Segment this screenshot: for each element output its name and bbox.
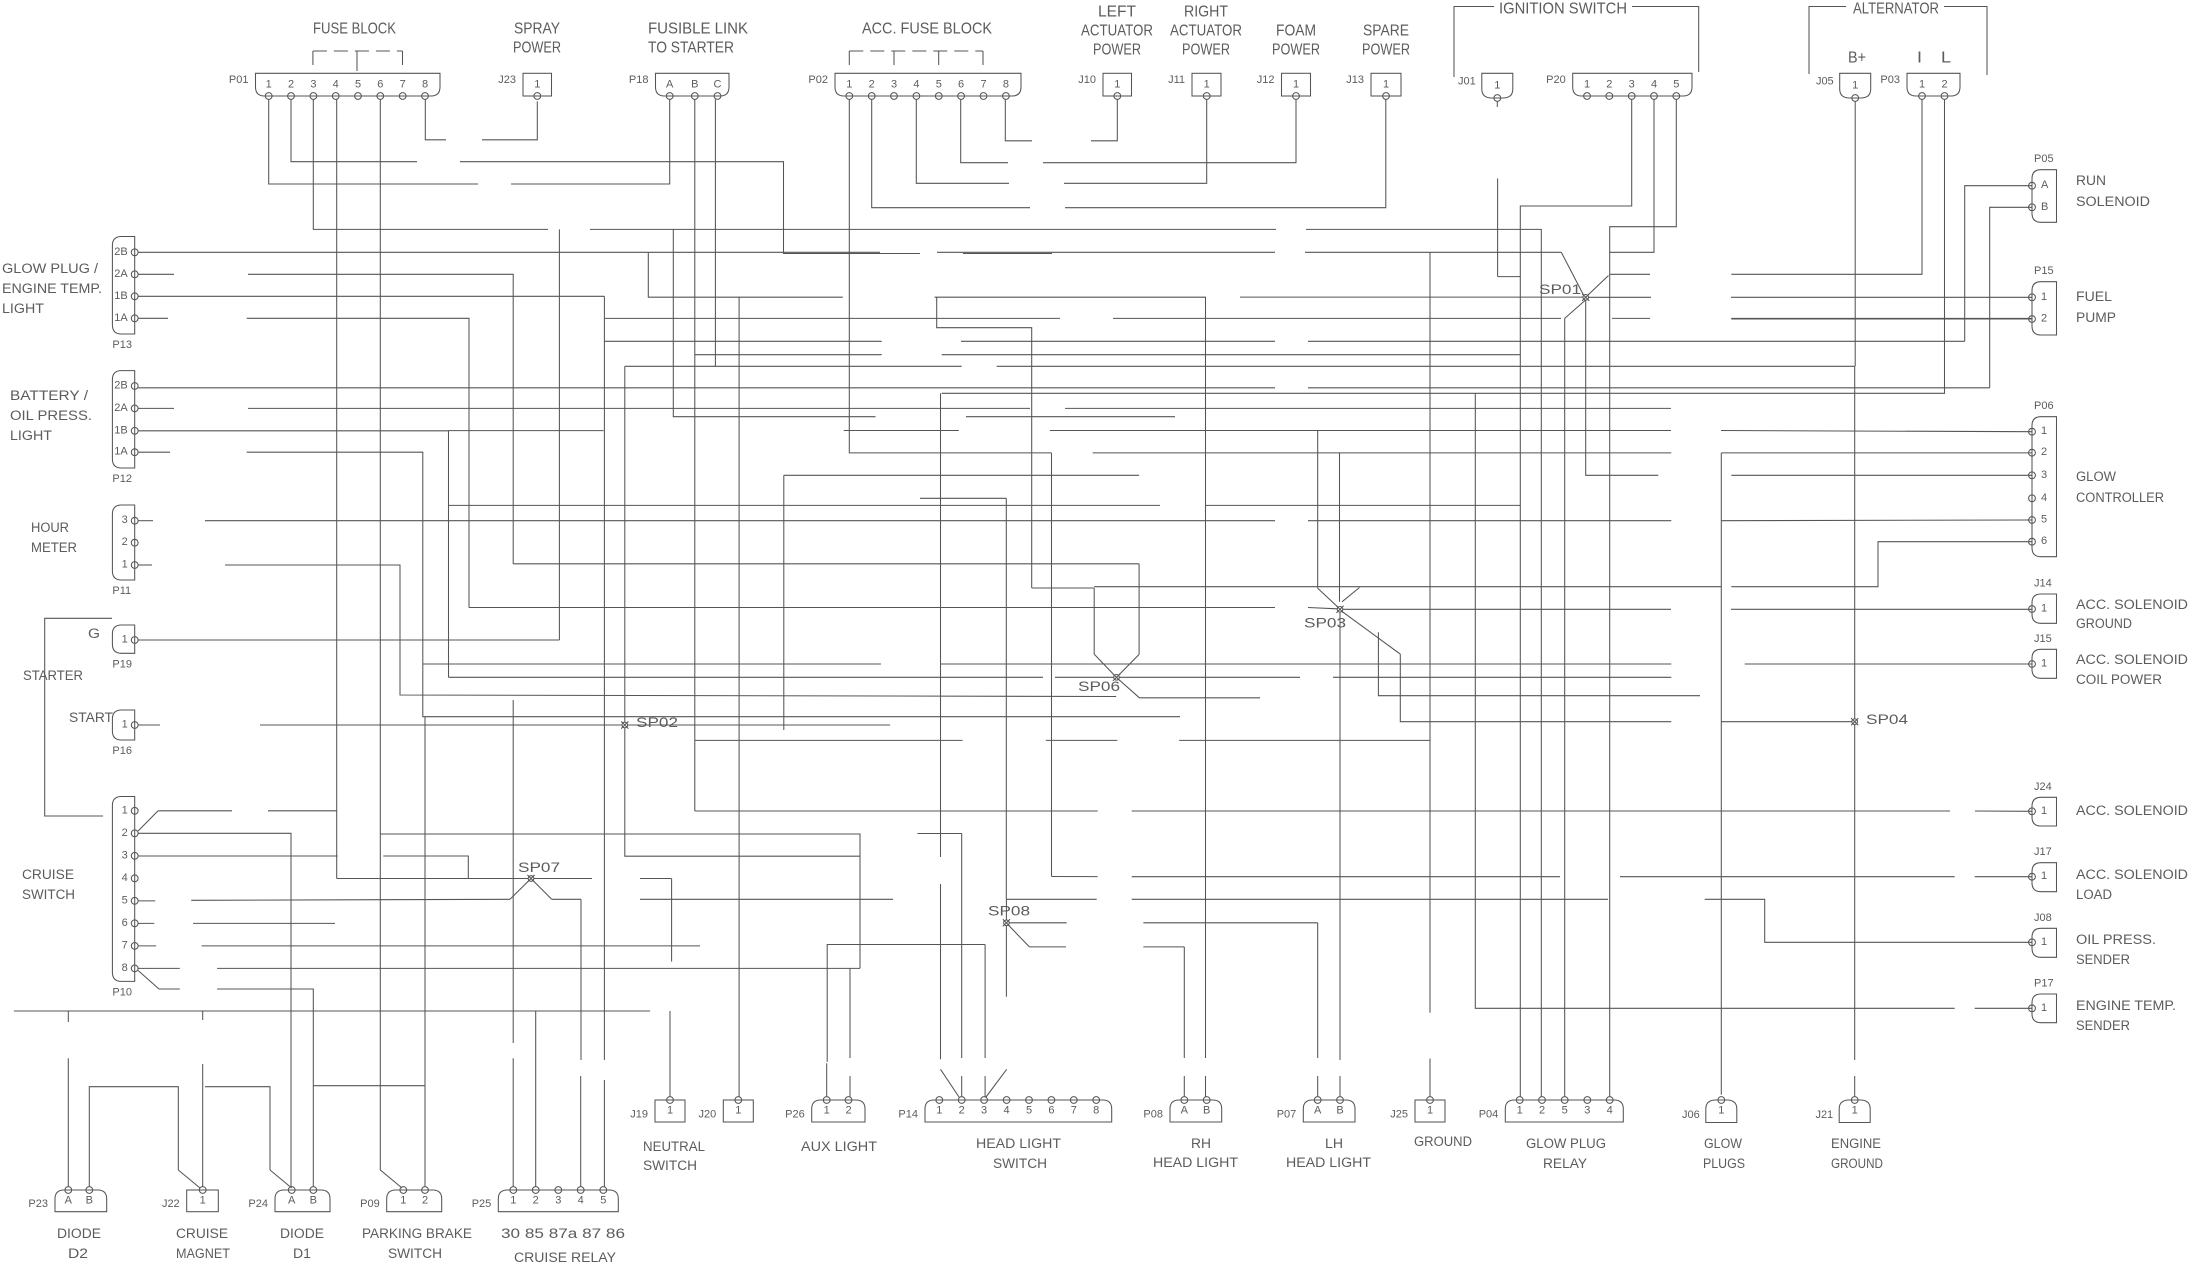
- wire P06-3 lead: [1731, 474, 2032, 476]
- wire SP06 ne feed: [1138, 564, 1140, 655]
- svg-text:GROUND: GROUND: [1414, 1134, 1472, 1149]
- svg-text:2: 2: [122, 536, 128, 548]
- wire fuse3 bus mid: [590, 228, 1276, 230]
- svg-text:6: 6: [958, 79, 964, 91]
- splice SP08: [988, 903, 1030, 926]
- svg-text:CRUISE RELAY: CRUISE RELAY: [514, 1250, 616, 1265]
- wire P11-1 stub: [138, 564, 152, 566]
- diagonal SP08 se: [1008, 925, 1029, 947]
- connector J20 neutral switch: [699, 1097, 754, 1122]
- acc fuse drop p1: [848, 51, 850, 71]
- wire SP08 below: [1005, 925, 1007, 996]
- wire P25-4 riser: [580, 899, 582, 1060]
- wire P15-1 lead: [1731, 296, 2032, 298]
- svg-text:B+: B+: [1848, 50, 1866, 67]
- svg-text:J21: J21: [1815, 1109, 1833, 1121]
- connector J14 acc solenoid ground: [2029, 578, 2057, 624]
- wire J24 bus: [695, 810, 1098, 812]
- svg-text:3: 3: [981, 1105, 987, 1117]
- wire P02-2 to J13 seg2: [1065, 99, 1386, 207]
- svg-text:1A: 1A: [114, 312, 128, 324]
- diagonal 2B to SP01: [1561, 252, 1583, 295]
- diagonal SP07 se: [533, 881, 552, 900]
- svg-text:1: 1: [735, 1105, 741, 1117]
- wire J17 bus2: [1132, 876, 1560, 878]
- wire y955: [1029, 946, 1066, 948]
- wire x1051 drop: [1051, 453, 1053, 877]
- connector J11 right actuator power: [1168, 73, 1221, 99]
- wire P26-1 stub: [826, 1063, 828, 1096]
- svg-text:ENGINE TEMP.: ENGINE TEMP.: [2076, 998, 2176, 1013]
- svg-text:30 85 87a 87 86: 30 85 87a 87 86: [501, 1226, 625, 1241]
- wire P01-3 drop: [313, 99, 548, 229]
- svg-text:2: 2: [122, 827, 128, 839]
- svg-text:B: B: [86, 1195, 93, 1207]
- splice SP01: [1539, 282, 1589, 301]
- svg-text:C: C: [714, 79, 722, 91]
- svg-text:J24: J24: [2034, 781, 2052, 793]
- wire P11-3 bus2: [1308, 520, 1671, 522]
- svg-text:P19: P19: [112, 658, 132, 670]
- wire headlight feed: [648, 252, 843, 297]
- svg-text:5: 5: [2041, 514, 2047, 526]
- svg-text:1: 1: [2041, 291, 2047, 303]
- svg-text:P24: P24: [248, 1198, 268, 1210]
- wire P13-2B bus: [138, 251, 648, 253]
- svg-text:2: 2: [533, 1195, 539, 1207]
- wire x1006 long: [1005, 498, 1007, 899]
- connector P14 head light switch: [898, 1097, 1111, 1122]
- wire P11-3 bus: [205, 520, 1275, 522]
- wire J17 lead: [1975, 876, 2032, 878]
- wire P14-2 feed: [940, 393, 942, 857]
- wire P13-1A mid: [247, 318, 469, 607]
- svg-text:CRUISE: CRUISE: [176, 1226, 228, 1241]
- wire P20-4 drop: [1610, 99, 1654, 252]
- svg-text:1: 1: [1852, 1105, 1858, 1117]
- wire y355 branch mid: [942, 354, 1521, 356]
- wire SP03 drop to P07-B: [1339, 612, 1341, 1060]
- svg-text:1: 1: [1494, 80, 1500, 92]
- svg-text:ENGINE TEMP.: ENGINE TEMP.: [2, 281, 102, 296]
- wire P13-1A stub: [138, 317, 168, 319]
- svg-text:P09: P09: [360, 1198, 380, 1210]
- wire P12-2A bus east: [1065, 407, 1671, 409]
- svg-text:P14: P14: [898, 1109, 918, 1121]
- connector P06 glow controller: [2029, 400, 2057, 557]
- wire P04-5 drop: [1564, 318, 1566, 1096]
- wire y417 east: [966, 416, 1175, 418]
- wire J05 drop: [1854, 101, 1856, 366]
- svg-text:GLOW PLUG: GLOW PLUG: [1526, 1136, 1606, 1151]
- svg-text:2: 2: [288, 79, 294, 91]
- wire P08-B drop b: [1205, 1076, 1207, 1097]
- wire P10-3 lead: [138, 855, 338, 857]
- svg-text:STARTER: STARTER: [23, 668, 83, 683]
- wire y565 bus: [513, 563, 1139, 565]
- wire y274 to P03-1 seg2: [1731, 99, 1922, 274]
- svg-text:ACC. SOLENOID: ACC. SOLENOID: [2076, 597, 2188, 612]
- wire y955 mid: [1143, 946, 1184, 948]
- wire P10-8 lead: [138, 967, 180, 969]
- svg-text:J23: J23: [498, 74, 516, 86]
- svg-text:PUMP: PUMP: [2076, 310, 2116, 325]
- wire P13-2A mid: [248, 274, 513, 564]
- svg-text:J20: J20: [699, 1109, 717, 1121]
- svg-text:6: 6: [1048, 1105, 1054, 1117]
- svg-text:J06: J06: [1682, 1109, 1700, 1121]
- svg-text:P17: P17: [2034, 978, 2054, 990]
- wire P06-1 lead: [1721, 431, 2032, 432]
- wire 1B bus y318 mid: [1113, 317, 1561, 319]
- svg-text:SWITCH: SWITCH: [993, 1156, 1047, 1171]
- wire x783 drop: [783, 475, 785, 730]
- svg-text:1: 1: [824, 1105, 830, 1117]
- wire P06-1 bus west0: [449, 430, 604, 432]
- wire P08-A drop b: [1183, 1076, 1185, 1097]
- wire P12-1B lead: [138, 431, 1160, 506]
- wire P01-1 to P18-A seg1: [269, 99, 478, 184]
- wire P23-B lead: [89, 1087, 178, 1187]
- svg-text:P11: P11: [112, 585, 131, 597]
- svg-text:SP07: SP07: [518, 860, 560, 875]
- connector J19 neutral switch: [630, 1097, 685, 1122]
- svg-text:LH: LH: [1325, 1136, 1343, 1151]
- wire P23-A lead: [67, 1058, 69, 1186]
- wire y587 west: [1032, 587, 1095, 589]
- ignition bracket left: [1454, 7, 1494, 78]
- fuse block jumper drop p3: [312, 51, 314, 71]
- svg-text:3: 3: [555, 1195, 561, 1207]
- wire P05-B bus west: [138, 387, 1275, 389]
- connector P25 cruise relay: [472, 1187, 619, 1212]
- wire P10-5 stub: [138, 900, 155, 902]
- connector P08 RH head light: [1143, 1097, 1221, 1122]
- svg-text:SPARE: SPARE: [1363, 23, 1409, 40]
- svg-text:J11: J11: [1168, 74, 1185, 86]
- svg-text:8: 8: [1093, 1105, 1099, 1117]
- diagonal SP07 sw: [510, 881, 529, 900]
- svg-text:1: 1: [1517, 1105, 1523, 1117]
- svg-text:RUN: RUN: [2076, 173, 2106, 188]
- wire P18-C drop: [714, 99, 716, 366]
- svg-text:1: 1: [1852, 80, 1858, 92]
- wire 1B bus y318 east: [1612, 317, 1650, 319]
- wire P13-1B bus: [138, 295, 604, 297]
- wire SP07 line west: [337, 878, 528, 880]
- connector P16 starter start: [112, 710, 138, 757]
- svg-text:OIL PRESS.: OIL PRESS.: [2076, 932, 2156, 947]
- wire P01-6 long drop: [379, 99, 381, 1170]
- svg-text:A: A: [1314, 1105, 1322, 1117]
- connector P01 fuse block: [229, 73, 440, 99]
- svg-text:SPRAY: SPRAY: [514, 21, 560, 38]
- svg-text:J19: J19: [630, 1109, 648, 1121]
- svg-text:1: 1: [1383, 79, 1389, 91]
- svg-text:TO STARTER: TO STARTER: [648, 40, 734, 57]
- svg-text:4: 4: [578, 1195, 584, 1207]
- svg-text:ENGINE: ENGINE: [1831, 1136, 1881, 1151]
- svg-text:1: 1: [1114, 79, 1120, 91]
- wire y899 bus2: [1006, 898, 1096, 900]
- svg-text:8: 8: [422, 79, 428, 91]
- svg-text:5: 5: [1026, 1105, 1032, 1117]
- wire P07-A drop: [1317, 923, 1319, 1058]
- wire J01 drop: [1497, 179, 1499, 277]
- diagonal SP06 se: [1119, 679, 1140, 697]
- svg-text:2: 2: [422, 1195, 428, 1207]
- svg-text:FOAM: FOAM: [1276, 23, 1316, 40]
- acc fuse drop p3: [893, 51, 895, 71]
- connector P04 glow plug relay: [1479, 1097, 1624, 1122]
- wire P02-4 to J11 seg2: [1064, 99, 1207, 183]
- wire P07-A drop b: [1317, 1076, 1319, 1097]
- svg-text:3: 3: [1584, 1105, 1590, 1117]
- wire P26-2 riser b: [849, 1076, 851, 1097]
- svg-text:I: I: [1917, 50, 1922, 67]
- wire P06-5 lead: [1721, 519, 2032, 522]
- svg-text:1: 1: [1204, 79, 1210, 91]
- wire 1B to SP01 west: [137, 295, 139, 297]
- svg-text:J25: J25: [1390, 1109, 1408, 1121]
- wire P01-4 long drop: [336, 99, 338, 878]
- svg-text:CRUISE: CRUISE: [22, 867, 74, 882]
- wire P01-2 cont: [460, 162, 920, 254]
- connector P19 starter G: [112, 625, 138, 670]
- svg-text:AUX LIGHT: AUX LIGHT: [801, 1139, 877, 1154]
- svg-text:LEFT: LEFT: [1098, 4, 1136, 21]
- wire SP04 to J21: [1854, 725, 1856, 1060]
- wire P24-A riser: [205, 1087, 270, 1170]
- diagonal to P14-3: [986, 1069, 1007, 1097]
- svg-text:P10: P10: [112, 986, 132, 998]
- wire J05 to SP04: [1854, 366, 1856, 718]
- svg-text:1: 1: [122, 559, 128, 571]
- wire P20-5 drop: [1610, 99, 1677, 274]
- svg-text:LIGHT: LIGHT: [2, 301, 44, 316]
- wire P14-2 feed b: [940, 884, 942, 1059]
- svg-text:1: 1: [1718, 1105, 1724, 1117]
- wire SP04 west lead: [1721, 721, 1851, 723]
- wire SP03 feed up: [1317, 431, 1319, 589]
- svg-text:1: 1: [1293, 79, 1299, 91]
- wire x671 drop: [671, 879, 673, 962]
- wire P12-2A stub: [138, 407, 174, 409]
- svg-text:1: 1: [1584, 79, 1590, 91]
- wire P25-2 lead: [535, 1011, 537, 1187]
- svg-text:1: 1: [2041, 936, 2047, 948]
- wire P01-8 to J23: [425, 99, 446, 139]
- wire P14-3 riser: [984, 945, 986, 1059]
- wire ground drop J25 b: [1429, 1059, 1431, 1097]
- wire P09-2 lead: [424, 1086, 426, 1187]
- svg-text:GLOW: GLOW: [1704, 1136, 1742, 1151]
- connector P18 fusible link: [629, 73, 729, 99]
- svg-text:P04: P04: [1479, 1109, 1499, 1121]
- connector J15 acc solenoid coil power: [2029, 633, 2057, 679]
- diagonal P10-8: [138, 971, 159, 990]
- wire x513 lower: [512, 700, 514, 1043]
- svg-text:2: 2: [1941, 79, 1947, 91]
- wire fuse3 bus east: [1306, 229, 1541, 1096]
- wire START lead: [138, 724, 160, 726]
- svg-text:B: B: [1203, 1105, 1210, 1117]
- wire P23-A stub: [67, 1011, 69, 1022]
- wire P02-2 to J13: [872, 99, 1030, 207]
- svg-text:4: 4: [1651, 79, 1657, 91]
- wire P11-3 stub: [138, 520, 153, 522]
- svg-text:1: 1: [2041, 1002, 2047, 1014]
- svg-text:J10: J10: [1078, 74, 1096, 86]
- wire y677 east: [1120, 676, 1301, 678]
- wire y698 east: [1139, 697, 1260, 699]
- svg-text:IGNITION SWITCH: IGNITION SWITCH: [1499, 1, 1627, 18]
- ignition bracket right: [1632, 7, 1699, 73]
- svg-text:P03: P03: [1880, 74, 1900, 86]
- svg-text:J17: J17: [2034, 846, 2052, 858]
- wire P17 lead: [1975, 1007, 2032, 1009]
- wire P17 riser: [1475, 393, 1954, 1008]
- wire J15 lead: [1745, 663, 2032, 665]
- wire SP03 to J14 east: [1731, 608, 2032, 610]
- svg-text:SP01: SP01: [1539, 282, 1581, 297]
- svg-text:HOUR: HOUR: [31, 520, 69, 535]
- wire P12-1A stub: [138, 451, 170, 453]
- wire J22 stub: [202, 1011, 204, 1020]
- connector P07 LH head light: [1277, 1097, 1355, 1122]
- alternator bracket left: [1809, 7, 1846, 75]
- svg-text:7: 7: [122, 939, 128, 951]
- svg-text:1: 1: [2041, 658, 2047, 670]
- svg-text:1: 1: [122, 719, 128, 731]
- svg-text:ACC. SOLENOID: ACC. SOLENOID: [2076, 803, 2188, 818]
- wire P10-5 lead: [191, 899, 510, 900]
- wire P10-3 mid: [383, 856, 468, 879]
- wire y366 east: [997, 365, 1855, 367]
- wire P12-1A mid: [247, 452, 1180, 717]
- wire neutral drop: [738, 297, 740, 1097]
- wire P20-3 drop: [1520, 99, 1631, 276]
- wire P08-A drop: [1183, 947, 1185, 1058]
- svg-text:PARKING BRAKE: PARKING BRAKE: [362, 1226, 472, 1241]
- fuse block jumper dashed: [313, 50, 403, 52]
- wire P14-2 riser: [961, 834, 963, 1059]
- wire P10-6 lead: [193, 922, 335, 924]
- svg-text:FUSE BLOCK: FUSE BLOCK: [313, 21, 396, 38]
- connector P13 glow plug light: [112, 237, 138, 352]
- wire SP02 down: [625, 728, 860, 856]
- wire P06-1 bus: [1050, 430, 1671, 432]
- diagonal SP01 upright: [1588, 276, 1609, 296]
- svg-text:P01: P01: [229, 74, 249, 86]
- connector P24 diode D1: [248, 1187, 330, 1212]
- svg-text:2: 2: [869, 79, 875, 91]
- svg-text:7: 7: [980, 79, 986, 91]
- wire 1B branch down: [448, 505, 450, 677]
- connector J21 engine ground: [1815, 1097, 1870, 1123]
- svg-text:SWITCH: SWITCH: [643, 1158, 697, 1173]
- svg-text:SP04: SP04: [1866, 712, 1909, 727]
- wire ground drop J25: [1429, 252, 1431, 1012]
- wire y740 bus2: [1046, 739, 1118, 741]
- wire P01-2 drop: [291, 99, 417, 161]
- connector P15 fuel pump: [2029, 265, 2057, 335]
- svg-text:2: 2: [845, 1105, 851, 1117]
- svg-text:P13: P13: [112, 339, 132, 351]
- connector J23 spray power: [498, 73, 551, 99]
- wire P05-A bus mid: [961, 340, 1275, 342]
- wire P10-8 lead2: [217, 967, 860, 969]
- wire P24B-P09-2 bridge: [313, 1085, 425, 1087]
- diagonal P24-A: [270, 1170, 292, 1188]
- svg-text:ACC. SOLENOID: ACC. SOLENOID: [2076, 652, 2188, 667]
- wire P05-A bus: [1308, 340, 1965, 342]
- svg-text:B: B: [691, 79, 698, 91]
- wire SP03 branch: [1378, 632, 1700, 695]
- svg-text:P23: P23: [28, 1198, 48, 1210]
- wire y740 bus1: [695, 739, 963, 741]
- diagonal to P14-2: [941, 1069, 960, 1097]
- wire jog y327: [937, 297, 1032, 588]
- wire P14-2 riser b: [961, 1076, 963, 1097]
- svg-text:3: 3: [122, 849, 128, 861]
- wire 1B bus y318: [604, 317, 1060, 319]
- wire x604 lower: [603, 1080, 605, 1187]
- wire P02-8 to J10: [1005, 99, 1032, 140]
- wire P19-1 G lead: [138, 639, 559, 641]
- svg-text:3: 3: [2041, 469, 2047, 481]
- connector P12 battery oil light: [112, 371, 138, 485]
- wire J17 bus15: [1052, 876, 1098, 878]
- svg-text:1: 1: [936, 1105, 942, 1117]
- wire P05-B bus: [1308, 387, 1990, 389]
- svg-text:LIGHT: LIGHT: [10, 428, 52, 443]
- wire y498 lead: [920, 497, 1006, 499]
- svg-text:P02: P02: [808, 74, 828, 86]
- wire SP02 east: [628, 724, 890, 726]
- acc fuse jumper dashed: [849, 50, 983, 52]
- svg-text:P26: P26: [785, 1109, 805, 1121]
- connector J17 acc solenoid load: [2029, 846, 2057, 892]
- svg-text:1: 1: [266, 79, 272, 91]
- svg-text:5: 5: [122, 894, 128, 906]
- splice SP07: [518, 860, 560, 882]
- wire J24 lead: [1975, 810, 2032, 812]
- connector J06 glow plugs: [1682, 1097, 1737, 1123]
- connector P05 run solenoid: [2029, 153, 2057, 222]
- svg-text:G: G: [88, 626, 100, 641]
- wire P05-A lead: [1965, 186, 2032, 342]
- svg-text:ACC. SOLENOID: ACC. SOLENOID: [2076, 867, 2188, 882]
- wire P02-1 drop: [849, 99, 1051, 453]
- svg-text:8: 8: [122, 962, 128, 974]
- wire SP02 feed: [624, 366, 626, 722]
- wire y587 bus: [1094, 586, 1721, 588]
- acc fuse drop p5: [938, 51, 940, 71]
- wire P01-8 to J23 seg2: [482, 101, 537, 139]
- svg-text:1: 1: [534, 79, 540, 91]
- wire 2B bus mid2: [937, 251, 1275, 253]
- svg-text:2B: 2B: [114, 380, 127, 392]
- wire y276 link: [1498, 276, 1521, 278]
- svg-text:1: 1: [400, 1195, 406, 1207]
- diagonal to P10-2: [138, 811, 158, 831]
- wire y355 branch: [695, 354, 882, 356]
- wire y899 busb: [640, 898, 893, 900]
- svg-text:1: 1: [2041, 603, 2047, 615]
- svg-text:SP08: SP08: [988, 903, 1030, 918]
- svg-text:CONTROLLER: CONTROLLER: [2076, 490, 2164, 505]
